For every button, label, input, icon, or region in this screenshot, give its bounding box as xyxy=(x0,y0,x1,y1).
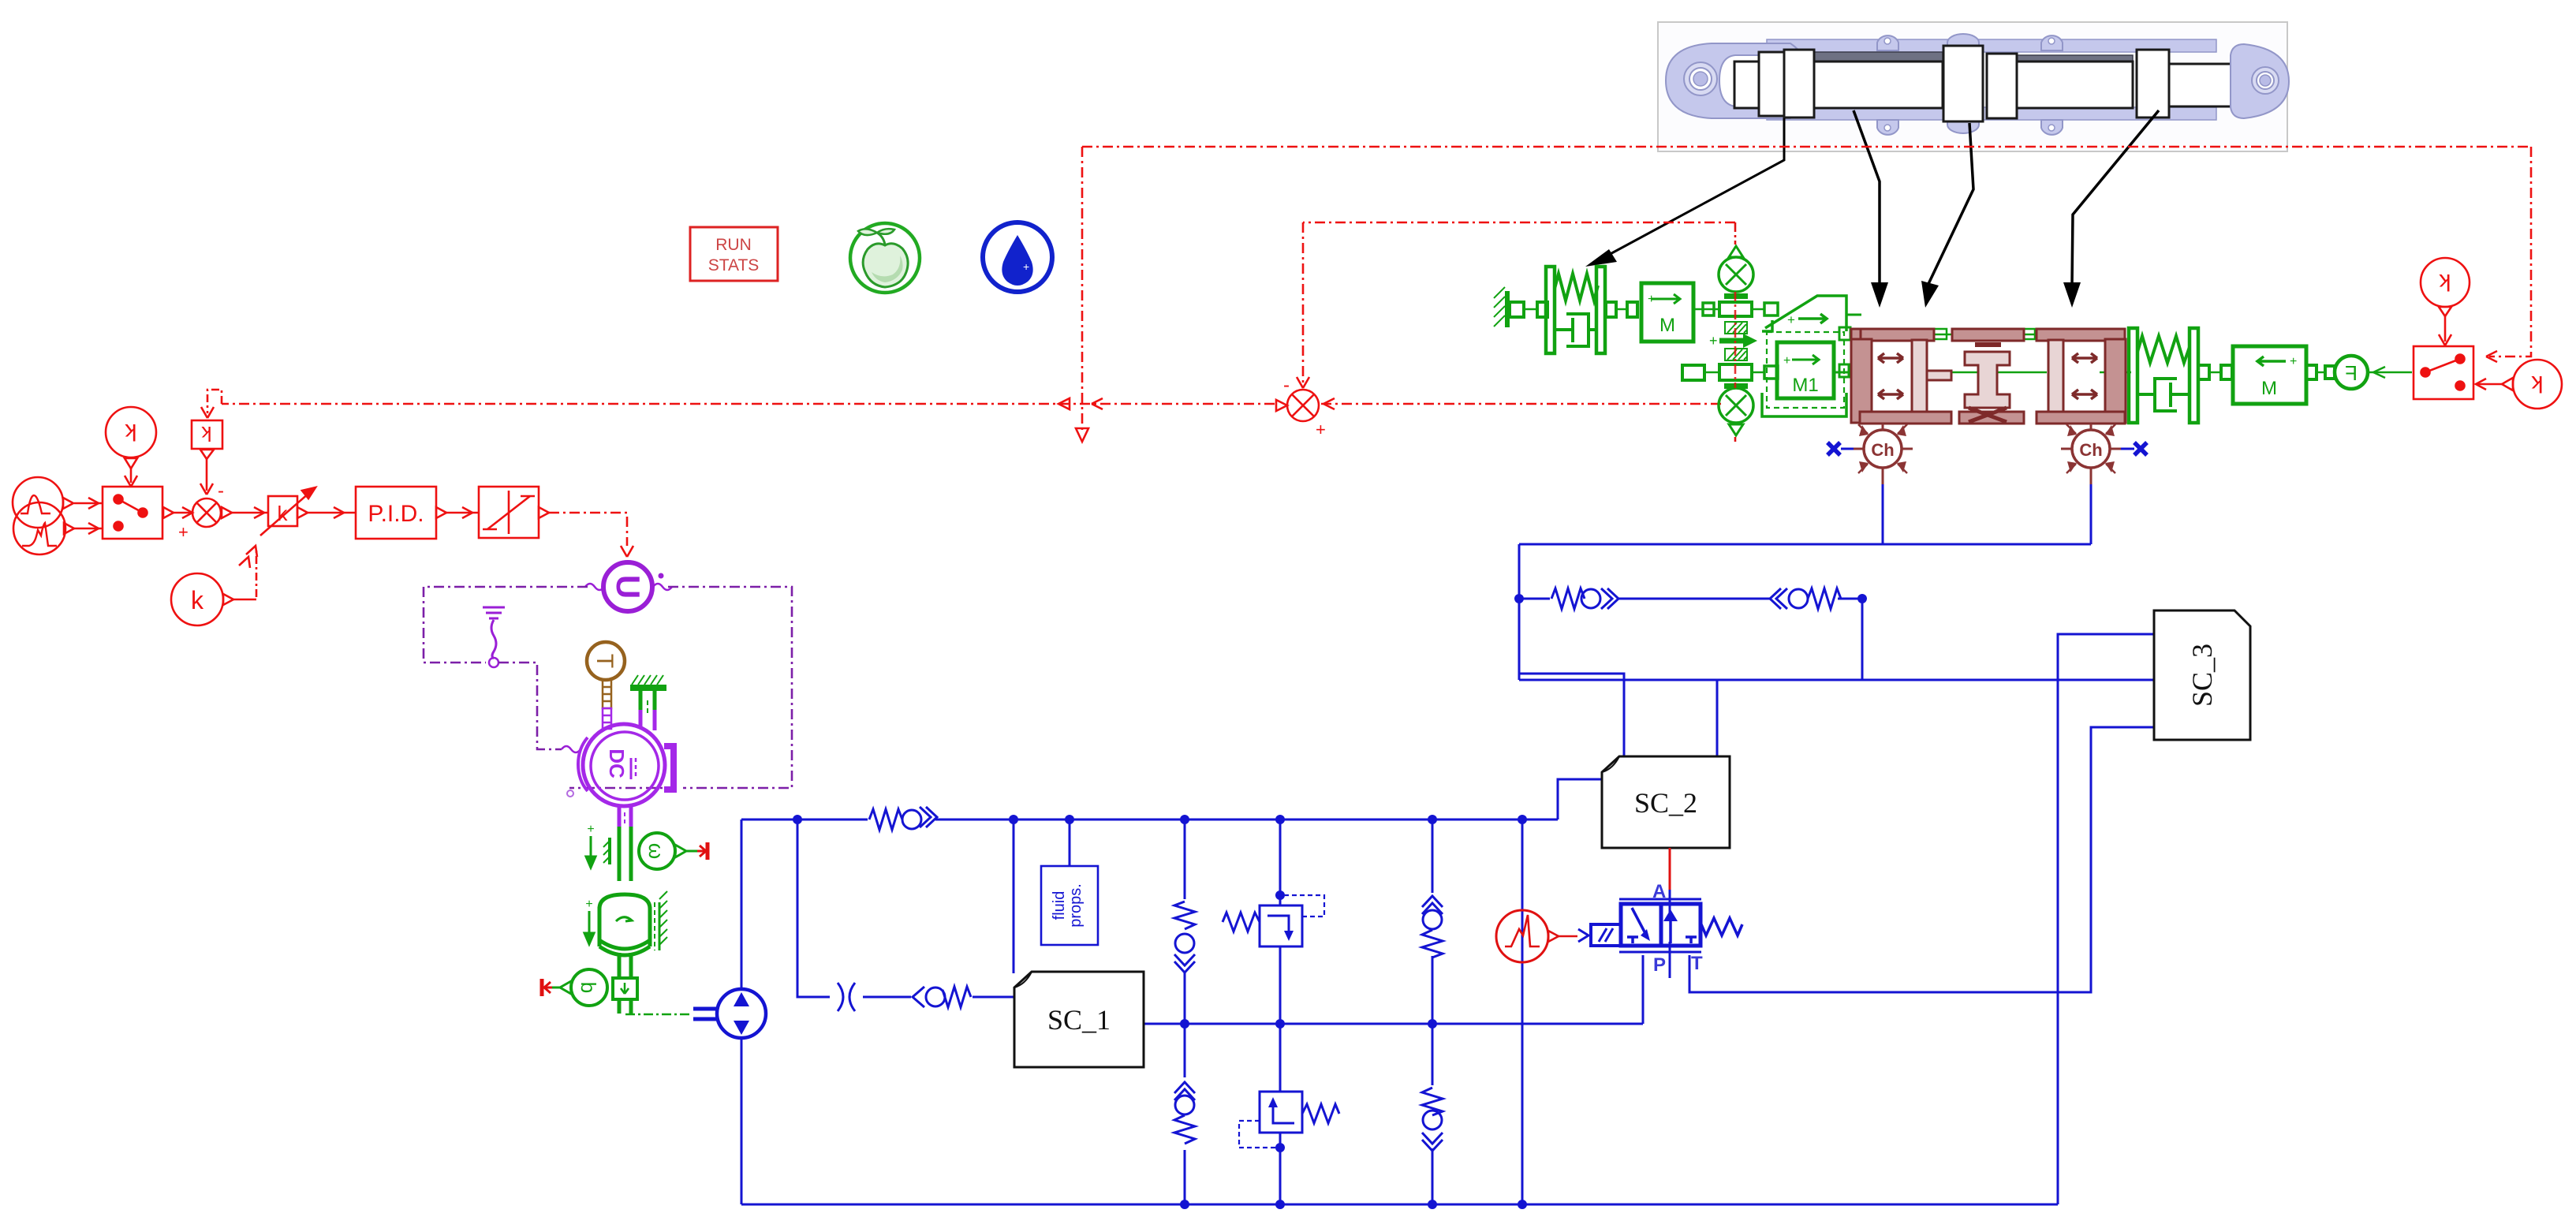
wire: SC_1 out y1298 xyxy=(1144,1023,1643,1025)
black leader arrow 2 xyxy=(1854,110,1880,286)
wire: chamber line y690 xyxy=(1519,543,2091,546)
junction SC_1 out a xyxy=(1180,1019,1189,1029)
summer X1 xyxy=(192,498,221,527)
wire: supply line y1039 xyxy=(741,819,1558,821)
Ch chamber right xyxy=(2061,424,2121,484)
row1 to coupling xyxy=(1693,308,1719,311)
mass block M xyxy=(1641,283,1693,342)
barrel 1 xyxy=(1814,62,1943,108)
constant k circle low xyxy=(171,573,223,625)
dark top bar 1 xyxy=(1814,52,1943,62)
lavender bottom plate xyxy=(1767,107,2216,120)
velocity arrow 1 xyxy=(586,823,595,868)
green dashdot to pump xyxy=(625,1014,692,1016)
junction relief2 pilot xyxy=(1275,1143,1285,1152)
red sensor column segments xyxy=(1734,222,1737,442)
drum wall hatch right xyxy=(655,891,667,950)
red terminator left xyxy=(544,987,552,989)
svg-text:T: T xyxy=(592,654,618,668)
wire: check line y766 xyxy=(1519,598,1862,600)
wire: node to motor minus xyxy=(498,663,562,749)
RUN STATS box xyxy=(690,227,778,281)
barrel 2 xyxy=(2017,62,2133,108)
right arrows xyxy=(2072,353,2097,363)
hatch bar 1 xyxy=(603,838,610,864)
svg-text:F: F xyxy=(2345,361,2358,385)
switch2 box xyxy=(2414,346,2473,399)
bottom lugs xyxy=(1877,120,1898,135)
wire: T line to SC_3 bottom xyxy=(1689,727,2154,992)
svg-text:DC: DC xyxy=(605,749,629,778)
spring top xyxy=(2137,336,2190,363)
SC_3 supercomponent xyxy=(2154,610,2250,740)
check valve to SC_1 xyxy=(911,986,973,1008)
right bracket terminal xyxy=(664,746,674,790)
gain k dashdot from k const xyxy=(256,547,258,597)
saturation box xyxy=(479,487,539,538)
switch1 box xyxy=(103,487,162,539)
left eye rings xyxy=(1684,62,1717,95)
top X sensor xyxy=(1719,257,1753,292)
svg-text:Ch: Ch xyxy=(1871,440,1894,460)
junction pump tee xyxy=(793,815,802,824)
rotary drum load xyxy=(599,894,650,955)
svg-text:+: + xyxy=(178,522,189,542)
wire: x1926 vertical xyxy=(1518,544,1521,680)
wire: tank bottom line xyxy=(741,1204,2058,1206)
wire: P riser xyxy=(1642,955,1645,1024)
wire: column x1816 xyxy=(1432,819,1434,1204)
connector squares xyxy=(1510,302,1524,317)
svg-text:+: + xyxy=(587,823,594,836)
wire: SC_3 mid line xyxy=(1519,679,2154,681)
svg-text:T: T xyxy=(1691,953,1703,974)
signal source circle 1 xyxy=(13,477,63,528)
damper bottom xyxy=(1555,328,1573,331)
ground hatch left xyxy=(1505,291,1510,327)
wire: jog into kbar box xyxy=(207,390,222,413)
damper bottom xyxy=(2171,393,2190,396)
wire: pump top riser xyxy=(741,819,743,989)
shaft below box xyxy=(618,999,622,1014)
junction relief column top xyxy=(1275,815,1285,824)
links to cylinder xyxy=(1846,314,1861,316)
svg-text:ω: ω xyxy=(644,843,668,859)
wire: fluid props drop xyxy=(1069,819,1071,866)
node out triangle sum2 left xyxy=(1276,400,1287,411)
DC motor body xyxy=(583,724,665,806)
svg-text:k: k xyxy=(125,419,137,445)
svg-text:P: P xyxy=(1653,954,1666,976)
wire: branch x1011 down xyxy=(797,819,1014,997)
svg-text:Ch: Ch xyxy=(2079,440,2102,460)
SC_2 bottom signal red xyxy=(1669,848,1671,890)
junction check2 column top xyxy=(1428,815,1437,824)
PID box xyxy=(356,487,436,539)
orifice xyxy=(830,983,863,1011)
drop icon xyxy=(983,222,1052,292)
constant kbar circle top xyxy=(2421,258,2470,307)
right clamp xyxy=(2137,50,2169,118)
wire: feedback to left y512 xyxy=(222,403,1275,405)
left piston xyxy=(1912,340,1927,412)
svg-text:+: + xyxy=(1709,333,1718,349)
junction tank a xyxy=(1180,1200,1189,1209)
svg-text:SC_3: SC_3 xyxy=(2186,644,2218,707)
bottom cradle xyxy=(1762,393,1846,416)
svg-text:U: U xyxy=(610,575,647,599)
svg-text:b: b xyxy=(577,982,600,993)
relief valve 2 xyxy=(1239,1092,1339,1148)
left cell glyphs xyxy=(1627,937,1638,943)
red signal source for valve xyxy=(1496,910,1548,962)
bypass check left y766 xyxy=(1550,588,1618,610)
wire: column x1623 xyxy=(1279,819,1282,905)
input arrow xyxy=(1578,929,1589,942)
electrical node xyxy=(489,658,498,667)
junction SC_1 out b xyxy=(1275,1019,1285,1029)
wire: purple dashdot right loop xyxy=(668,587,792,788)
wire saturation out dashdot xyxy=(549,513,627,546)
svg-text:M1: M1 xyxy=(1792,375,1818,396)
wire to switch xyxy=(74,503,103,528)
wire: SC_2 left riser jog xyxy=(1519,674,1624,756)
svg-text:STATS: STATS xyxy=(708,256,760,274)
junction P branch xyxy=(1428,1019,1437,1029)
right cell glyphs xyxy=(1686,937,1697,943)
junction signal column top xyxy=(1518,815,1527,824)
node sum1 out xyxy=(222,507,232,518)
wire: main top dash-dot y186 xyxy=(1082,146,2531,148)
voltage source U xyxy=(603,562,652,611)
photo frame xyxy=(1658,22,2287,151)
motor output shaft down xyxy=(618,805,622,827)
left brush arc xyxy=(578,737,588,791)
signal source circle 2 xyxy=(13,502,65,554)
solenoid xyxy=(1591,924,1621,946)
shaft below drum xyxy=(618,953,622,978)
svg-text:fluid: fluid xyxy=(1051,891,1068,920)
segmented shaft brown to purple xyxy=(603,680,611,708)
right piston xyxy=(2048,340,2063,412)
svg-text:SC_2: SC_2 xyxy=(1634,787,1697,819)
black leader arrow 4 xyxy=(2072,110,2159,286)
node switch out xyxy=(163,507,174,518)
M1 box xyxy=(1777,342,1834,398)
svg-text:-: - xyxy=(218,480,224,502)
right jack body xyxy=(2037,329,2125,341)
black leader arrow 3 xyxy=(1928,123,1973,286)
mid clamp xyxy=(1943,46,1983,121)
wire: right Ch riser xyxy=(2090,484,2093,544)
earth ground xyxy=(483,607,505,659)
lever housing xyxy=(1765,296,1846,331)
directional valve xyxy=(1578,881,1742,978)
green link stubs at cylinder left xyxy=(1839,327,2131,377)
check valve on supply xyxy=(868,806,937,830)
black leader arrow to spring xyxy=(1606,118,1784,256)
block D xyxy=(1987,54,2017,118)
mass M right xyxy=(2233,346,2306,404)
green input line from switch xyxy=(2368,371,2412,374)
svg-text:k: k xyxy=(191,586,204,614)
wire: right drop to switch xyxy=(2489,147,2531,357)
svg-text:+: + xyxy=(1787,312,1795,327)
right clevis xyxy=(2231,44,2289,118)
force source F xyxy=(2335,356,2368,389)
Ch chamber left xyxy=(1853,424,1913,484)
shaft purple-to-green xyxy=(618,827,622,881)
svg-text:k: k xyxy=(201,422,212,446)
red terminator right xyxy=(697,850,704,853)
wavy terminals of U xyxy=(585,584,604,590)
node gain out xyxy=(297,507,308,518)
svg-text:M: M xyxy=(2261,378,2277,399)
wire: column x1502 xyxy=(1184,819,1186,1204)
wire: vertical x1372 xyxy=(1081,147,1084,430)
svg-text:+: + xyxy=(585,898,592,911)
rotary sensor circle xyxy=(571,969,607,1006)
right rod xyxy=(2169,64,2255,106)
omega speed sensor xyxy=(639,833,675,869)
spring damper plates xyxy=(1546,267,1555,353)
wire: purple dashdot left loop xyxy=(424,587,588,663)
junction relief1 pilot xyxy=(1275,890,1285,900)
spring check col1502 upper xyxy=(1174,899,1196,973)
summer X2 xyxy=(1287,390,1319,421)
apple icon xyxy=(850,223,920,293)
svg-text:k: k xyxy=(2439,269,2451,295)
connectors xyxy=(2198,365,2209,379)
wire: SC_2 right riser xyxy=(1716,680,1719,756)
connectors to F xyxy=(2306,365,2317,379)
constant kbar square xyxy=(192,420,222,449)
wire: drop to sum2 xyxy=(1302,222,1305,383)
svg-text:k: k xyxy=(2531,371,2544,397)
spring top xyxy=(1555,274,1598,301)
wire: sensor top line y282 xyxy=(1303,222,1735,224)
check valve col1816 upper xyxy=(1421,893,1443,958)
svg-text:+: + xyxy=(1783,354,1790,368)
wire: left Ch riser xyxy=(1882,484,1884,544)
hatched blocks between rows xyxy=(1725,322,1747,360)
svg-text:M: M xyxy=(1659,315,1675,336)
row2 couplings xyxy=(1682,365,1704,380)
bypass check right y766 xyxy=(1770,588,1841,610)
constant kbar circle above switch xyxy=(106,407,156,457)
svg-text:+: + xyxy=(2290,355,2297,368)
spring right xyxy=(1701,918,1742,935)
middle unit xyxy=(1952,329,2024,341)
coupling row1 xyxy=(1719,302,1752,316)
wire: branch x1285 to SC_1 xyxy=(1013,819,1015,973)
svg-text:RUN: RUN xyxy=(715,236,752,254)
junction bypass left xyxy=(1514,594,1524,603)
torque meter box xyxy=(613,978,637,999)
svg-text:P.I.D.: P.I.D. xyxy=(368,501,424,527)
bottom X sensor xyxy=(1724,383,1748,389)
left clevis body xyxy=(1666,43,1810,118)
junction tank b xyxy=(1275,1200,1285,1209)
torque sensor T brown xyxy=(587,642,625,680)
blue X left xyxy=(1827,442,1840,455)
junction check column top xyxy=(1180,815,1189,824)
relief valve 1 xyxy=(1223,895,1324,946)
block A xyxy=(1759,52,1784,116)
wire: lower dashdot stub left xyxy=(569,787,677,790)
wire: SC_3 top to tank xyxy=(2058,634,2154,1204)
junction SC_1 top branch xyxy=(1009,815,1018,824)
spring check col1502 lower xyxy=(1174,1077,1196,1150)
spring damper right plates xyxy=(2129,328,2137,423)
node arrow into sum2 right xyxy=(1323,398,1335,409)
left clevis slot xyxy=(1719,55,1779,106)
top lugs xyxy=(1877,35,1898,50)
junction fluid props branch xyxy=(1065,815,1074,824)
dashed frame around M1 xyxy=(1767,332,1844,408)
svg-text:-: - xyxy=(1283,375,1290,396)
node arrows at 1372 crossing xyxy=(1058,398,1070,409)
SC_2 supercomponent xyxy=(1602,756,1730,848)
junction dots xyxy=(793,594,1867,1209)
constant k circle right xyxy=(2513,360,2562,409)
SC_1 supercomponent xyxy=(1014,972,1144,1067)
node arrow into sum2 top xyxy=(1297,377,1309,388)
junction tank c xyxy=(1428,1200,1437,1209)
node arrow into right switch xyxy=(2486,351,2497,362)
wire: feedback from sensor y512 xyxy=(1320,403,1721,405)
svg-text:SC_1: SC_1 xyxy=(1047,1004,1111,1036)
junction bypass right xyxy=(1857,594,1867,603)
node out triangles of sources xyxy=(63,498,73,509)
gain k box xyxy=(268,496,297,526)
svg-text:+: + xyxy=(1648,293,1655,306)
svg-text:props.: props. xyxy=(1067,883,1085,928)
svg-text:+: + xyxy=(1023,260,1029,273)
wire: check line y766 riser xyxy=(1861,599,1864,680)
node down arrow at 1372 xyxy=(1076,428,1088,442)
connector to M xyxy=(1606,302,1616,317)
lavender top plate xyxy=(1767,39,2216,52)
left arrows xyxy=(1878,353,1903,363)
rod end left xyxy=(1734,62,1760,108)
wire: jog to SC_2 left xyxy=(1558,779,1602,819)
check valve col1816 lower xyxy=(1421,1085,1443,1151)
left jack body xyxy=(1860,329,1934,341)
wire: column x1930 xyxy=(1521,819,1524,1204)
junction tank d xyxy=(1518,1200,1527,1209)
bold arrow middle xyxy=(1719,338,1746,344)
wire: pump bottom riser xyxy=(741,1038,743,1204)
fluid props block xyxy=(1041,866,1098,945)
motor top-right mount green/purple xyxy=(630,675,666,730)
svg-text:+: + xyxy=(1316,420,1326,439)
blue X right xyxy=(2134,442,2147,455)
velocity arrow 2 xyxy=(584,898,594,944)
block B xyxy=(1784,50,1814,118)
pump xyxy=(717,989,766,1038)
